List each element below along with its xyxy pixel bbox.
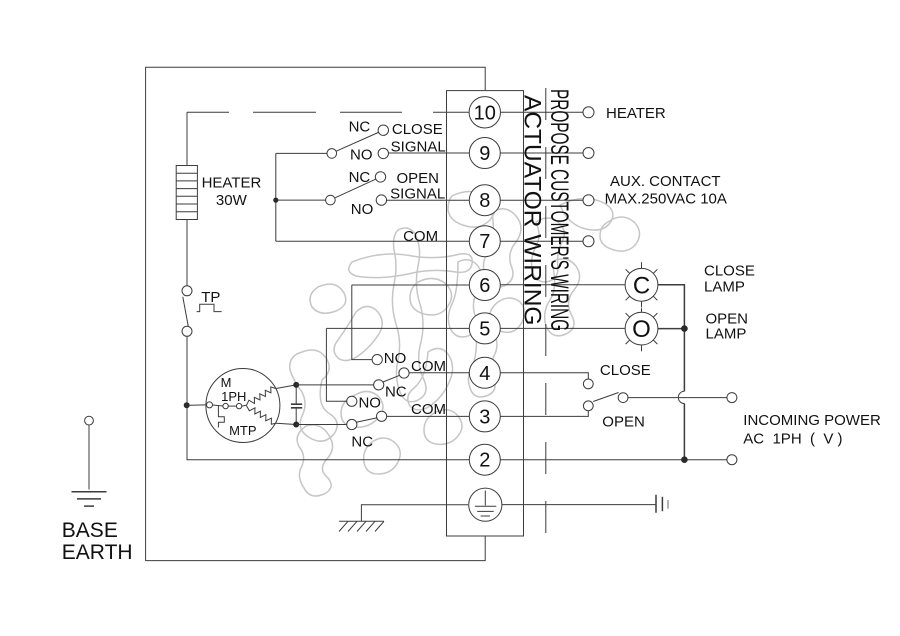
svg-text:M: M [221,375,232,390]
svg-text:COM: COM [411,358,446,375]
svg-text:CLOSE: CLOSE [392,121,443,138]
svg-text:AC 1PH ( V ): AC 1PH ( V ) [743,431,842,448]
svg-text:NO: NO [351,201,374,218]
svg-text:NC: NC [349,169,371,186]
svg-text:ACTUATOR WIRING: ACTUATOR WIRING [519,95,546,325]
svg-text:NC: NC [385,383,407,400]
svg-text:HEATER: HEATER [606,105,666,122]
svg-text:CLOSE: CLOSE [600,362,651,379]
svg-text:LAMP: LAMP [706,326,747,343]
svg-text:8: 8 [479,190,490,212]
svg-text:6: 6 [479,275,490,297]
svg-text:10: 10 [474,102,496,124]
svg-text:LAMP: LAMP [704,278,745,295]
svg-text:NO: NO [384,350,407,367]
svg-text:NO: NO [350,146,373,163]
svg-text:2: 2 [479,450,490,472]
svg-text:C: C [633,272,650,299]
svg-text:5: 5 [479,318,490,340]
svg-text:BASE: BASE [62,519,118,542]
svg-text:7: 7 [479,231,490,253]
svg-text:MAX.250VAC 10A: MAX.250VAC 10A [605,191,727,208]
svg-text:CLOSE: CLOSE [704,262,755,279]
svg-text:SIGNAL: SIGNAL [391,138,446,155]
svg-text:NC: NC [349,119,371,136]
svg-text:NC: NC [351,433,373,450]
svg-text:INCOMING POWER: INCOMING POWER [743,412,881,429]
svg-text:HEATER: HEATER [202,175,262,192]
svg-text:EARTH: EARTH [62,541,133,564]
svg-text:PROPOSE CUSTOMER'S WIRING: PROPOSE CUSTOMER'S WIRING [545,89,573,331]
svg-text:O: O [632,316,651,343]
svg-text:OPEN: OPEN [602,413,645,430]
svg-text:9: 9 [479,143,490,165]
svg-text:COM: COM [411,401,446,418]
svg-text:NO: NO [358,395,381,412]
svg-text:SIGNAL: SIGNAL [390,186,445,203]
svg-text:3: 3 [479,406,490,428]
svg-text:OPEN: OPEN [396,170,439,187]
svg-text:AUX. CONTACT: AUX. CONTACT [610,173,721,190]
svg-text:1PH: 1PH [221,389,246,404]
svg-text:COM: COM [403,228,438,245]
svg-text:4: 4 [479,363,490,385]
svg-text:TP: TP [201,289,220,306]
svg-text:30W: 30W [216,192,248,209]
svg-text:MTP: MTP [229,423,256,438]
